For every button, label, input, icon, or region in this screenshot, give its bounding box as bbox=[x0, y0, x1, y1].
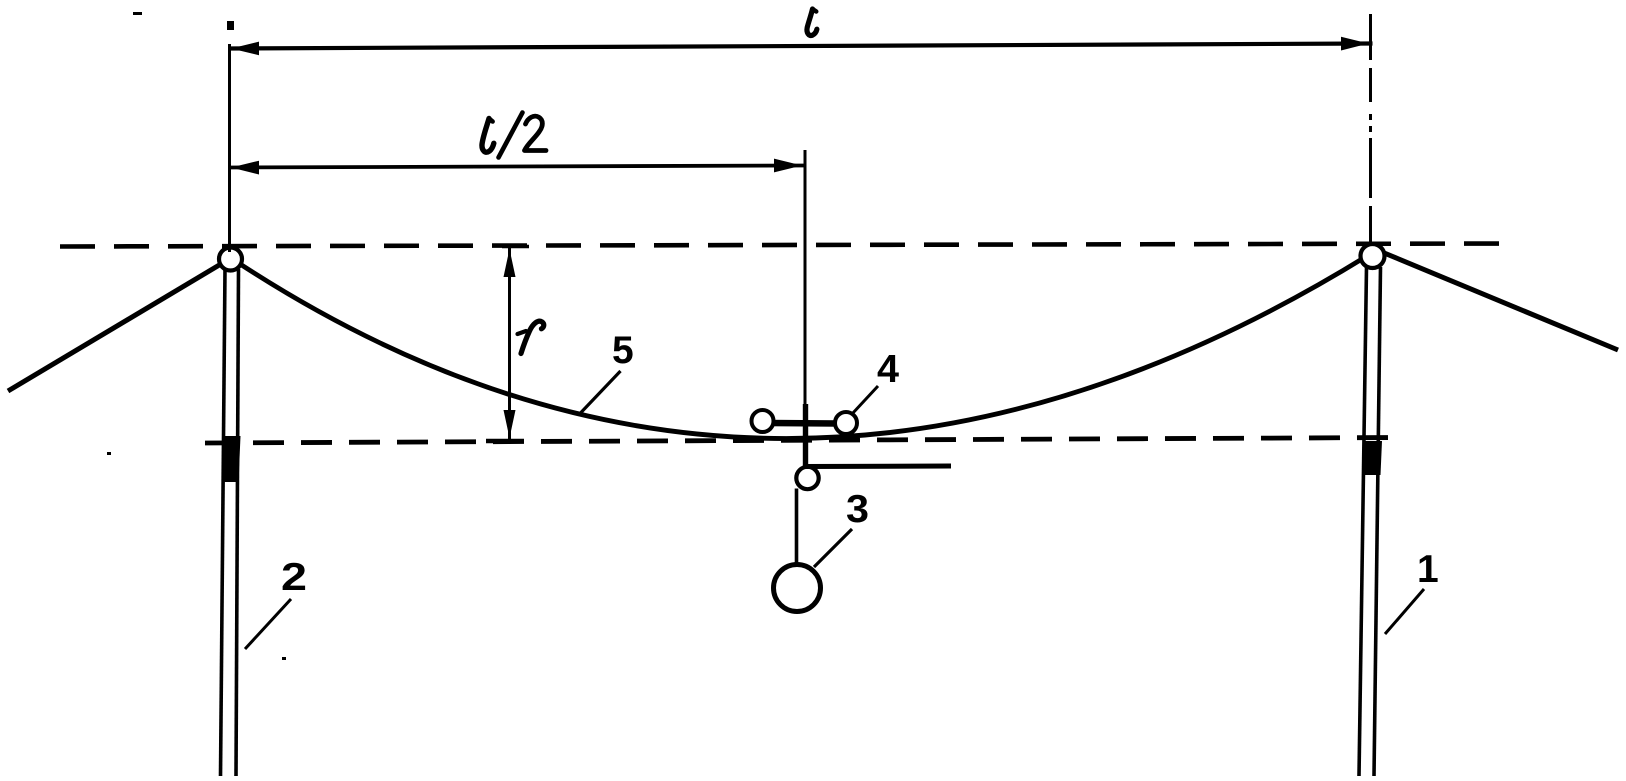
horizontal reference bar right of centre bbox=[806, 464, 951, 470]
speck artifacts bbox=[133, 12, 142, 15]
wire: left anchor guy bbox=[8, 261, 226, 391]
centre suspension line (mid-span vertical) bbox=[804, 150, 807, 404]
leader for 5 bbox=[581, 371, 621, 413]
dashed datum line lower (sag level) bbox=[205, 438, 1400, 444]
wire: suspended cable (catenary, item 5) bbox=[237, 256, 1367, 439]
pole 1 (right support mast) bbox=[1359, 267, 1382, 776]
dashed datum line upper (pole tops level) bbox=[60, 244, 1510, 247]
label f bbox=[518, 321, 544, 353]
dimension line l/2 (half span) bbox=[229, 159, 805, 175]
svg-text:4: 4 bbox=[877, 348, 899, 391]
trolley roller left bbox=[752, 410, 774, 432]
extension line right (above right pole) bbox=[1369, 14, 1372, 246]
insulator circle on left pole top bbox=[219, 248, 242, 271]
hanger cord to weight bbox=[795, 489, 799, 566]
label l/2 bbox=[482, 113, 546, 158]
label l (script ell) bbox=[807, 9, 817, 36]
dimension f (sag) vertical with arrows bbox=[486, 247, 529, 442]
leader for 1 bbox=[1385, 589, 1424, 634]
extension line left (above left pole) bbox=[228, 44, 231, 252]
trolley bar (item 4 carriage) bbox=[770, 420, 837, 427]
leader for 2 bbox=[245, 599, 291, 649]
svg-text:2: 2 bbox=[281, 556, 307, 599]
wire: right anchor guy bbox=[1377, 250, 1618, 350]
shackle ring below trolley bbox=[796, 467, 818, 489]
dimension line l (full span) bbox=[229, 37, 1373, 56]
weight ball (item 3) bbox=[774, 565, 821, 612]
leader for 4 bbox=[852, 386, 878, 414]
insulator circle on right pole top bbox=[1361, 244, 1385, 268]
pole 2 (left support mast) bbox=[221, 269, 241, 776]
svg-text:3: 3 bbox=[846, 488, 869, 531]
svg-text:5: 5 bbox=[612, 329, 634, 372]
leader for 3 bbox=[814, 529, 852, 567]
svg-text:1: 1 bbox=[1417, 548, 1439, 591]
trolley roller right bbox=[835, 412, 857, 434]
